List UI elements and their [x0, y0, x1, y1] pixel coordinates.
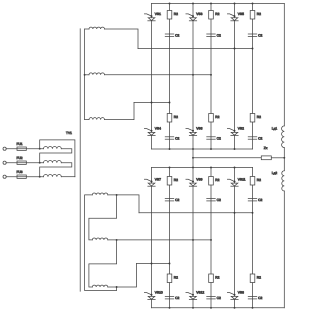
inductor Ld1 [282, 126, 285, 148]
wire primary w1 right link [40, 149, 72, 163]
wire thyristor column 3 bottom bridge [234, 168, 236, 308]
svg-text:C2: C2 [175, 136, 179, 140]
svg-text:R2: R2 [257, 178, 261, 182]
svg-text:VS4: VS4 [155, 127, 161, 131]
node link tap [192, 157, 194, 159]
wire Zx line left [193, 157, 261, 159]
wire thyristor column 1 bottom bridge [151, 168, 153, 308]
wire thyristor column 2 top bridge [192, 4, 194, 150]
svg-text:VS3: VS3 [196, 12, 202, 16]
wire primary w3 right [61, 176, 75, 178]
wire thyristor column 3 top bridge [234, 4, 236, 150]
node wye middle junction [84, 74, 86, 76]
winding primary w1 [44, 146, 62, 148]
wire Zx line right [271, 157, 284, 159]
svg-text:R2: R2 [215, 12, 219, 16]
capacitor C2 [207, 33, 216, 35]
node top rail junction [192, 3, 194, 5]
winding primary w3 [44, 174, 62, 176]
svg-text:C2: C2 [217, 34, 221, 38]
thyristor VS1 [144, 14, 151, 16]
node phase-snubber junction [210, 239, 212, 241]
node phase-thyristor junction [234, 48, 236, 50]
inductor Ld2 [282, 171, 285, 191]
resistor R2 [209, 177, 214, 186]
svg-text:VS11: VS11 [238, 177, 246, 181]
svg-text:C2: C2 [258, 296, 262, 300]
resistor R2 [209, 274, 214, 283]
winding bottom secondary w1 [92, 193, 108, 195]
svg-text:R2: R2 [174, 178, 178, 182]
resistor R2 [167, 274, 172, 283]
svg-text:C2: C2 [217, 296, 221, 300]
wire delta closing link w1.left-w3.right [85, 195, 117, 291]
node phase-thyristor junction [151, 263, 153, 265]
wire w3 left [85, 119, 89, 121]
node phase-thyristor junction [192, 239, 194, 241]
wire bottom bridge negative rail [152, 307, 285, 309]
thyristor VS9 [186, 179, 193, 181]
wire phase line 3 bottom bridge [137, 263, 170, 265]
node phase-snubber junction [252, 212, 254, 214]
fuse FU3 [17, 175, 26, 178]
capacitor C2 [165, 296, 174, 298]
node w2 output junction [116, 239, 118, 241]
node bottom rail junction [234, 307, 236, 309]
resistor Zx [261, 156, 271, 160]
wire phase line 2 bottom bridge [108, 239, 211, 241]
node primary junction 1 [39, 148, 41, 150]
svg-text:C2: C2 [217, 198, 221, 202]
resistor R2 [167, 177, 172, 186]
svg-text:C2: C2 [258, 198, 262, 202]
wire terminal to winding 2 [6, 162, 43, 164]
svg-text:Lд2: Lд2 [272, 171, 278, 175]
thyristor VS6 [186, 129, 193, 131]
capacitor C2 [207, 198, 216, 200]
node top rail junction [169, 3, 171, 5]
node upper rail junction [192, 167, 194, 169]
svg-text:C2: C2 [217, 136, 221, 140]
svg-text:VS2: VS2 [238, 127, 244, 131]
wire right border upper [283, 4, 285, 126]
resistor R2 [167, 114, 172, 123]
node upper rail junction [234, 167, 236, 169]
node primary junction 3 [39, 176, 41, 178]
winding top secondary w1 [89, 27, 105, 29]
winding top secondary w3 [89, 118, 105, 120]
winding top secondary w2 [89, 73, 105, 75]
node lower rail junction [210, 148, 212, 150]
svg-text:R2: R2 [215, 275, 219, 279]
svg-text:R2: R2 [174, 275, 178, 279]
thyristor VS3 [186, 14, 193, 16]
svg-text:C2: C2 [258, 34, 262, 38]
svg-text:VS7: VS7 [155, 177, 161, 181]
svg-text:VS12: VS12 [196, 291, 204, 295]
capacitor C2 [165, 33, 174, 35]
thyristor VS11 [227, 179, 234, 181]
svg-text:FU1: FU1 [17, 142, 23, 146]
fuse FU1 [17, 147, 26, 150]
wire right border lower [283, 191, 285, 308]
node phase-snubber junction [169, 102, 171, 104]
node top rail junction [210, 3, 212, 5]
thyristor VS8 [227, 293, 234, 295]
wire phase line 1 top bridge [138, 48, 253, 50]
svg-text:VS5: VS5 [238, 12, 244, 16]
svg-text:VS6: VS6 [196, 127, 202, 131]
wire thyristor column 1 top bridge [151, 4, 153, 150]
node phase-snubber junction [210, 74, 212, 76]
wire inter-bridge link [192, 149, 194, 168]
winding bottom secondary w3 [92, 285, 108, 287]
node phase-snubber junction [252, 48, 254, 50]
wire wye bus [84, 29, 86, 120]
wire snubber column 2 bottom bridge [210, 168, 212, 308]
wire bottom bridge upper rail [152, 167, 253, 169]
svg-text:Lд1: Lд1 [272, 126, 278, 130]
thyristor VS4 [144, 129, 151, 131]
svg-text:R2: R2 [215, 115, 219, 119]
node upper rail junction [210, 167, 212, 169]
svg-text:R2: R2 [174, 12, 178, 16]
wire w1 output + jog down [108, 195, 139, 213]
wire snubber column 1 top bridge [169, 4, 171, 150]
node phase-thyristor junction [234, 212, 236, 214]
node lower rail junction [234, 148, 236, 150]
svg-text:C2: C2 [175, 296, 179, 300]
terminal input 1 [3, 147, 6, 150]
node primary junction 2 [39, 162, 41, 164]
wire top bridge positive rail [152, 3, 285, 5]
resistor R2 [250, 11, 255, 20]
wire primary w1 up-link [40, 140, 75, 177]
resistor R2 [209, 114, 214, 123]
svg-text:FU2: FU2 [17, 156, 23, 160]
node phase-thyristor junction [151, 102, 153, 104]
wire snubber column 3 bottom bridge [252, 168, 254, 308]
wire w3 right + jog up [105, 103, 135, 120]
wire terminal to winding 3 [6, 176, 43, 178]
svg-text:Zx: Zx [264, 146, 268, 150]
wire snubber column 1 bottom bridge [169, 168, 171, 308]
thyristor VS12 [186, 293, 193, 295]
node lower rail junction [192, 148, 194, 150]
wire long vertical A [79, 29, 81, 291]
wire w1 left [85, 28, 89, 30]
capacitor C2 [248, 33, 257, 35]
terminal input 2 [3, 161, 6, 164]
svg-text:R2: R2 [257, 115, 261, 119]
wire top bridge lower rail [152, 148, 253, 150]
wire delta link w2.right-w3.left [89, 240, 117, 287]
svg-text:R2: R2 [257, 12, 261, 16]
wire snubber column 3 top bridge [252, 4, 254, 150]
node inductor midpoint [283, 157, 285, 159]
node bottom rail junction [252, 307, 254, 309]
node bottom rail junction [169, 307, 171, 309]
node lower rail junction [169, 148, 171, 150]
thyristor VS5 [227, 14, 234, 16]
wire delta link w1.right-w2.left [89, 195, 117, 240]
node phase-thyristor junction [192, 74, 194, 76]
wire snubber column 2 top bridge [210, 4, 212, 150]
capacitor C2 [207, 296, 216, 298]
svg-text:R2: R2 [215, 178, 219, 182]
winding primary w2 [44, 160, 62, 162]
resistor R2 [250, 114, 255, 123]
node bottom rail junction [210, 307, 212, 309]
wire w3 output + jog up [108, 264, 137, 288]
resistor R2 [209, 11, 214, 20]
capacitor C2 [248, 136, 257, 138]
node w1 output junction [116, 194, 118, 196]
capacitor C2 [248, 198, 257, 200]
svg-text:FU3: FU3 [17, 170, 23, 174]
svg-text:VS9: VS9 [196, 177, 202, 181]
capacitor C2 [207, 136, 216, 138]
node phase-snubber junction [169, 263, 171, 265]
wire terminal to winding 1 [6, 148, 43, 150]
svg-text:C2: C2 [175, 198, 179, 202]
svg-text:C2: C2 [258, 136, 262, 140]
terminal input 3 [3, 175, 6, 178]
node top rail junction [252, 3, 254, 5]
svg-text:R2: R2 [174, 115, 178, 119]
node upper rail junction [169, 167, 171, 169]
wire w2 left [85, 74, 89, 76]
wire primary w2 right link [40, 163, 72, 177]
resistor R2 [167, 11, 172, 20]
resistor R2 [250, 177, 255, 186]
winding bottom secondary w2 [92, 238, 108, 240]
resistor R2 [250, 274, 255, 283]
node w3 output junction [116, 286, 118, 288]
svg-text:R2: R2 [257, 275, 261, 279]
svg-text:VS8: VS8 [238, 291, 244, 295]
capacitor C2 [165, 136, 174, 138]
node top rail junction [234, 3, 236, 5]
wire phase line 3 top bridge [134, 102, 170, 104]
wire w1 right + jog down [105, 29, 139, 49]
capacitor C2 [248, 296, 257, 298]
svg-text:TV1: TV1 [66, 131, 72, 135]
wire midpoint to inductor2 [283, 158, 285, 171]
node bottom rail junction [192, 307, 194, 309]
svg-text:VS10: VS10 [155, 291, 163, 295]
wire inductor1 to midpoint [283, 148, 285, 158]
svg-text:C2: C2 [175, 34, 179, 38]
thyristor VS7 [144, 179, 151, 181]
wire phase line 1 bottom bridge [139, 212, 253, 214]
fuse FU2 [17, 161, 26, 164]
svg-text:VS1: VS1 [155, 12, 161, 16]
wire phase line 2 top bridge [105, 74, 212, 76]
capacitor C2 [165, 198, 174, 200]
thyristor VS10 [144, 293, 151, 295]
thyristor VS2 [227, 129, 234, 131]
wire thyristor column 2 bottom bridge [192, 168, 194, 308]
